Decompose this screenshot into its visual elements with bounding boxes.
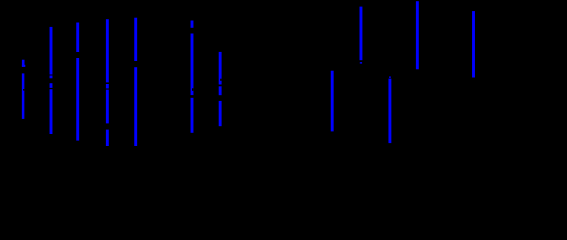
event line 12 main segment	[388, 79, 391, 144]
event line 2 segment a	[50, 27, 53, 75]
event line 11	[331, 71, 334, 132]
event line 8 main segment	[360, 7, 363, 61]
event line 5 segment a	[134, 18, 137, 61]
event line 6 short dash	[191, 21, 194, 28]
event line 1 short dash	[22, 60, 25, 67]
event line 4 segment c	[106, 90, 109, 124]
event line 7 segment b	[219, 86, 222, 95]
event line 3 segment a	[76, 23, 79, 53]
event line 6 right-half notch	[192, 88, 193, 91]
event line 8 tail dash	[360, 62, 362, 64]
event line 2 segment c	[50, 83, 53, 88]
event line 7 segment a	[219, 52, 222, 85]
event line 9	[416, 1, 419, 69]
event line 1 short-dash foot	[22, 65, 25, 67]
event line 1 long segment	[22, 73, 25, 119]
event line 2 segment d	[50, 89, 53, 134]
event line 7 right-half notch	[220, 79, 221, 81]
event line 6 long segment	[191, 34, 194, 96]
event line 7 segment c	[219, 101, 222, 126]
event line 6 bottom segment	[191, 98, 194, 133]
event line 5 segment b	[134, 67, 137, 146]
event line 2 segment b	[50, 76, 53, 79]
event line 4 segment b	[106, 84, 109, 89]
event line 4 segment a	[106, 19, 109, 82]
event line 4 segment d	[106, 130, 109, 146]
event line 1 right-half notch	[23, 89, 24, 91]
event line 10	[472, 11, 475, 77]
event line 3 segment b	[76, 58, 79, 141]
event line 12 top dot	[389, 76, 391, 78]
